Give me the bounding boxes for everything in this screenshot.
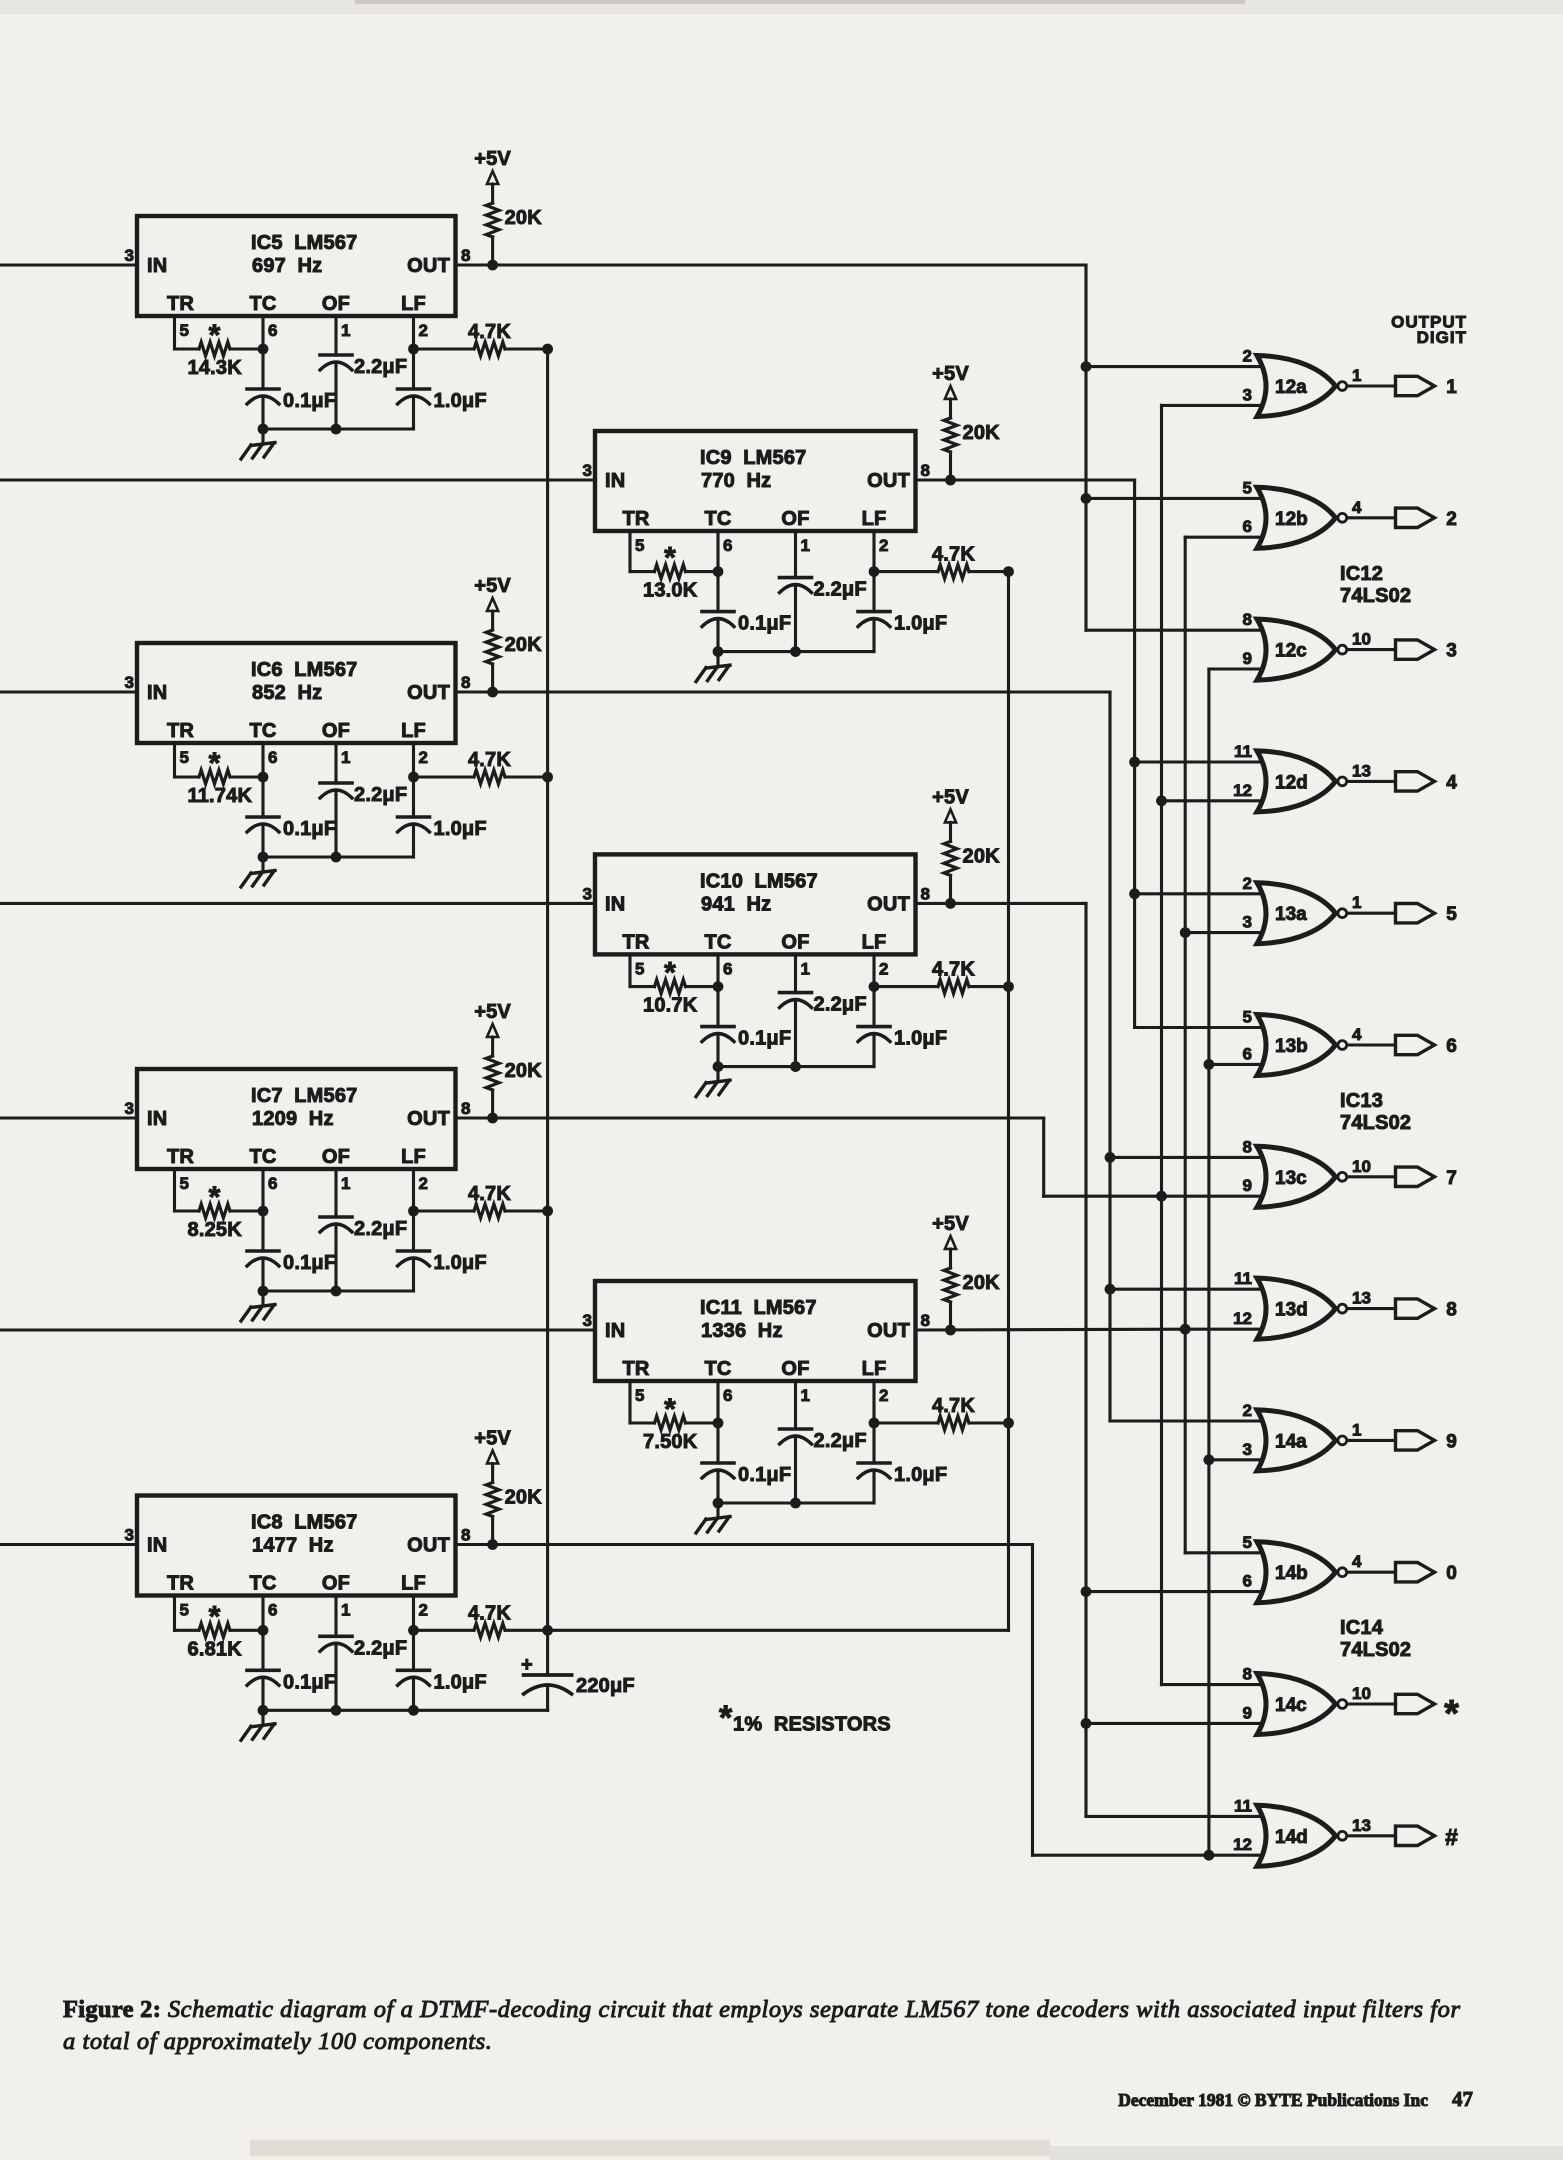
svg-text:OUT: OUT (407, 1535, 450, 1557)
ground symbol of IC7 (241, 1291, 275, 1321)
svg-text:2.2μF: 2.2μF (354, 1218, 407, 1240)
svg-text:OF: OF (322, 1573, 350, 1595)
svg-text:6: 6 (1243, 1572, 1252, 1591)
wire: input 9 feed of gate 12c (1209, 667, 1262, 670)
node: output digit label 9 (1446, 1431, 1457, 1452)
svg-text:5: 5 (180, 1601, 189, 1620)
resistor 4.7K (LF of IC6) (414, 749, 548, 784)
svg-text:IC8 LM567: IC8 LM567 (251, 1512, 357, 1534)
wire: pin 1 OF stub of IC7 (334, 1169, 337, 1217)
capacitor 220uF electrolytic (521, 1630, 635, 1710)
resistor 20K pull-up of IC7 (486, 1037, 542, 1118)
svg-text:5: 5 (1446, 904, 1457, 925)
svg-text:5: 5 (1243, 1533, 1252, 1552)
wire: pin 1 OF stub of IC5 (334, 316, 337, 355)
power +5V symbol of IC9 (932, 363, 969, 399)
wire: pin 5 TR stub of IC10 (628, 954, 631, 986)
svg-text:4.7K: 4.7K (468, 1602, 511, 1624)
svg-text:LF: LF (401, 1146, 426, 1168)
svg-text:14c: 14c (1275, 1695, 1307, 1716)
svg-text:770 Hz: 770 Hz (701, 470, 771, 492)
wire: pin 1 OF stub of IC10 (794, 954, 797, 992)
svg-text:3: 3 (1243, 1440, 1252, 1459)
svg-text:TR: TR (167, 720, 194, 742)
node: LF junction of IC7 (408, 1206, 419, 1217)
node: bus tap for 13c pin 8 (1105, 1152, 1116, 1163)
svg-text:20K: 20K (963, 1272, 1001, 1294)
output buffer arrow for digit 0 (1396, 1563, 1435, 1582)
node: OUTPUT DIGIT heading (1391, 313, 1467, 348)
wire: 220uF ground rail extension (414, 1709, 548, 1712)
svg-text:+: + (521, 1654, 533, 1676)
wire: ground rail of IC9 (718, 650, 874, 653)
wire: bus D (IC10 941 Hz) vertical (1084, 903, 1087, 1816)
node: OUT pull-up junction of IC6 (487, 687, 498, 698)
power +5V symbol of IC11 (932, 1213, 969, 1249)
svg-text:7.50K: 7.50K (643, 1431, 698, 1453)
wire: pin 5 TR stub of IC8 (173, 1596, 176, 1631)
wire: input 2 feed of gate 14a (1110, 1419, 1262, 1422)
svg-text:6: 6 (723, 959, 732, 978)
node: loop-filter junction of IC7 (542, 1206, 553, 1217)
wire: input line to IC8 IN (pin 3) (0, 1543, 137, 1546)
svg-text:20K: 20K (505, 207, 543, 229)
node: LF junction of IC11 (869, 1418, 880, 1429)
wire: pin 1 OF stub of IC6 (334, 743, 337, 783)
wire: pin 6 TC stub of IC8 (261, 1596, 264, 1631)
ground symbol of IC8 (241, 1710, 275, 1740)
svg-text:1.0μF: 1.0μF (894, 1028, 947, 1050)
wire: input 2 feed of gate 12a (1086, 365, 1262, 368)
wire: pin 1 OF stub of IC9 (794, 531, 797, 578)
svg-text:8: 8 (461, 1099, 470, 1118)
svg-text:3: 3 (125, 1099, 134, 1118)
svg-text:13a: 13a (1275, 904, 1307, 925)
wire: input 6 feed of gate 12b (1185, 536, 1262, 539)
svg-text:8.25K: 8.25K (188, 1219, 243, 1241)
svg-text:220μF: 220μF (576, 1675, 635, 1697)
svg-text:7: 7 (1446, 1168, 1457, 1189)
wire: pin 2 LF stub of IC9 (872, 531, 875, 572)
svg-text:LF: LF (401, 720, 426, 742)
svg-text:12d: 12d (1275, 772, 1308, 793)
svg-text:4: 4 (1352, 1025, 1362, 1044)
svg-text:2: 2 (879, 1386, 888, 1405)
svg-text:5: 5 (1243, 1008, 1252, 1027)
node: output digit label 6 (1446, 1036, 1457, 1057)
node: output digit label 2 (1446, 509, 1457, 530)
svg-text:10: 10 (1352, 1684, 1371, 1703)
svg-text:14b: 14b (1275, 1563, 1308, 1584)
ground symbol of IC11 (696, 1503, 730, 1533)
svg-text:20K: 20K (963, 845, 1001, 867)
resistor 4.7K (LF of IC11) (874, 1395, 1009, 1430)
node: rail junction under OF of IC11 (790, 1498, 801, 1509)
svg-text:TC: TC (704, 508, 731, 530)
svg-text:LF: LF (862, 508, 887, 530)
svg-text:OUT: OUT (407, 682, 450, 704)
svg-text:13: 13 (1352, 1289, 1371, 1308)
svg-text:IC11 LM567: IC11 LM567 (700, 1297, 817, 1319)
svg-text:OF: OF (322, 720, 350, 742)
wire: pin 6 TC stub of IC10 (716, 954, 719, 986)
svg-text:6: 6 (268, 748, 277, 767)
svg-text:5: 5 (180, 748, 189, 767)
node: LF junction of IC8 (408, 1625, 419, 1636)
resistor 4.7K (LF of IC7) (414, 1183, 548, 1218)
svg-text:IC13: IC13 (1340, 1090, 1383, 1112)
wire: pin 1 OF stub of IC8 (334, 1596, 337, 1637)
wire: input 2 feed of gate 13a (1135, 892, 1262, 895)
resistor 20K pull-up of IC9 (944, 399, 1000, 480)
wire: input 12 feed of gate 12d (1162, 799, 1263, 802)
capacitor 1.0uF (LF of IC5) (398, 349, 487, 429)
wire: input 11 feed of gate 12d (1135, 760, 1262, 763)
svg-text:*: * (1444, 1693, 1459, 1735)
capacitor 0.1uF (TC of IC8) (247, 1630, 336, 1710)
node: bus tap for 14b pin 6 (1081, 1586, 1092, 1597)
svg-text:2: 2 (419, 1174, 428, 1193)
wire: input 5 feed of gate 14b (1185, 1551, 1262, 1554)
svg-text:OF: OF (781, 1358, 809, 1380)
wire: input 6 feed of gate 14b (1086, 1590, 1262, 1593)
svg-text:IN: IN (147, 1108, 167, 1130)
power +5V symbol of IC5 (474, 148, 511, 184)
svg-text:OF: OF (781, 931, 809, 953)
svg-text:2: 2 (419, 321, 428, 340)
svg-text:IC7 LM567: IC7 LM567 (251, 1085, 357, 1107)
wire: pin 2 LF stub of IC7 (412, 1169, 415, 1211)
IC8 LM567 1477 Hz tone decoder block (125, 1496, 471, 1620)
wire: input line to IC6 IN (pin 3) (0, 690, 137, 693)
wire: input line to IC5 IN (pin 3) (0, 263, 137, 266)
wire: IC11 OUT line (1336 Hz) to bus F (916, 1328, 1186, 1332)
svg-text:4.7K: 4.7K (932, 544, 975, 566)
IC6 LM567 852 Hz tone decoder block (125, 643, 471, 767)
svg-text:8: 8 (1243, 610, 1252, 629)
svg-text:5: 5 (635, 1386, 644, 1405)
svg-text:IC12: IC12 (1340, 563, 1383, 585)
capacitor 1.0uF (LF of IC9) (858, 572, 947, 652)
wire: input line to IC9 IN (pin 3) (0, 478, 595, 481)
svg-text:*: * (209, 319, 221, 352)
inverter bubble of gate 12c (1338, 645, 1347, 654)
node: bus tap for 12b pin 5 (1081, 493, 1092, 504)
svg-text:11: 11 (1234, 742, 1252, 761)
svg-text:12c: 12c (1275, 641, 1307, 662)
wire: output pin 4 of gate 13b (1347, 1025, 1395, 1045)
svg-text:2: 2 (419, 748, 428, 767)
node: OUT pull-up junction of IC10 (945, 898, 956, 909)
NOR gate 12b (74LS02) (1243, 478, 1336, 548)
svg-text:1: 1 (341, 748, 350, 767)
IC14 74LS02 label (1340, 1617, 1411, 1661)
svg-text:1.0μF: 1.0μF (894, 613, 947, 635)
svg-text:2.2μF: 2.2μF (354, 1637, 407, 1659)
svg-text:LF: LF (401, 1573, 426, 1595)
svg-text:9: 9 (1243, 1176, 1252, 1195)
svg-text:0.1μF: 0.1μF (738, 1028, 791, 1050)
svg-text:20K: 20K (505, 1060, 543, 1082)
svg-text:10: 10 (1352, 1157, 1371, 1176)
wire: input 11 feed of gate 13d (1110, 1288, 1262, 1291)
inverter bubble of gate 14c (1338, 1700, 1347, 1709)
svg-text:10: 10 (1352, 630, 1371, 649)
wire: output pin 13 of gate 12d (1347, 761, 1395, 781)
svg-text:4: 4 (1352, 498, 1362, 517)
svg-text:11: 11 (1234, 1269, 1252, 1288)
svg-text:6: 6 (1243, 517, 1252, 536)
wire: pin 2 LF stub of IC10 (872, 954, 875, 986)
resistor 13.0K 1% (TR-TC of IC9) (630, 542, 718, 602)
wire: input 8 feed of gate 13c (1110, 1156, 1262, 1159)
node: rail junction under TC of IC7 (258, 1286, 269, 1297)
node: output digit label 8 (1446, 1300, 1457, 1321)
svg-text:+5V: +5V (932, 786, 969, 808)
svg-text:12b: 12b (1275, 509, 1308, 530)
svg-text:0.1μF: 0.1μF (283, 390, 336, 412)
resistor 6.81K 1% (TR-TC of IC8) (175, 1600, 264, 1660)
svg-text:13d: 13d (1275, 1300, 1308, 1321)
output buffer arrow for digit # (1396, 1826, 1435, 1845)
svg-text:10.7K: 10.7K (643, 995, 698, 1017)
svg-text:6: 6 (268, 321, 277, 340)
node: loop-filter junction of IC5 (542, 344, 553, 355)
wire: pin 2 LF stub of IC5 (412, 316, 415, 349)
svg-text:5: 5 (180, 321, 189, 340)
svg-text:1: 1 (1352, 1420, 1361, 1439)
wire: IC5 OUT line (697 Hz) to bus A (456, 263, 1087, 266)
wire: ground rail of IC11 (718, 1501, 874, 1504)
svg-text:*: * (719, 1699, 733, 1737)
svg-text:941 Hz: 941 Hz (701, 893, 771, 915)
capacitor 0.1uF (TC of IC9) (702, 572, 791, 652)
wire: bus E (IC7 1209 Hz) vertical (1160, 405, 1163, 1684)
svg-text:3: 3 (1446, 641, 1457, 662)
wire: output pin 10 of gate 13c (1347, 1157, 1395, 1177)
wire: output pin 13 of gate 14d (1347, 1816, 1395, 1836)
output buffer arrow for digit 2 (1396, 508, 1435, 527)
node: rail junction under OF of IC5 (331, 424, 342, 435)
svg-text:13b: 13b (1275, 1036, 1308, 1057)
inverter bubble of gate 14d (1338, 1831, 1347, 1840)
inverter bubble of gate 13c (1338, 1172, 1347, 1181)
svg-text:TR: TR (167, 1146, 194, 1168)
svg-text:*: * (209, 747, 221, 780)
svg-text:3: 3 (1243, 913, 1252, 932)
wire: ground rail of IC10 (718, 1065, 874, 1068)
svg-text:14.3K: 14.3K (188, 357, 243, 379)
svg-text:IN: IN (147, 255, 167, 277)
svg-text:12: 12 (1233, 781, 1252, 800)
node: rail junction under OF of IC8 (331, 1705, 342, 1716)
wire: input line to IC10 IN (pin 3) (0, 902, 595, 905)
svg-text:IC9 LM567: IC9 LM567 (700, 447, 806, 469)
svg-text:4.7K: 4.7K (468, 321, 511, 343)
svg-text:3: 3 (125, 246, 134, 265)
svg-text:*: * (664, 542, 676, 575)
node: rail junction under TC of IC5 (258, 424, 269, 435)
node: 1% resistors note (719, 1699, 891, 1737)
svg-text:14d: 14d (1275, 1827, 1308, 1848)
node: bus tap for 13a pin 2 (1129, 888, 1140, 899)
svg-text:TC: TC (249, 1146, 276, 1168)
svg-text:TC: TC (704, 931, 731, 953)
svg-text:8: 8 (921, 884, 930, 903)
wire: pin 6 TC stub of IC5 (261, 316, 264, 349)
resistor 20K pull-up of IC5 (486, 184, 542, 265)
svg-text:852 Hz: 852 Hz (252, 682, 322, 704)
wire: loop-filter bus x1008 (IC9-IC11 LF summing) (1007, 572, 1010, 1631)
node: output digit label 3 (1446, 641, 1457, 662)
NOR gate 13c (74LS02) (1243, 1137, 1336, 1207)
inverter bubble of gate 14a (1338, 1436, 1347, 1445)
capacitor 2.2uF (OF of IC10) (780, 993, 867, 1067)
node: rail junction under TC of IC9 (713, 646, 724, 657)
wire: IC8 OUT line (1477 Hz) jog to bus G (456, 1545, 1209, 1856)
node: output digit label 5 (1446, 904, 1457, 925)
wire: input line to IC7 IN (pin 3) (0, 1116, 137, 1119)
svg-text:9: 9 (1446, 1431, 1457, 1452)
svg-text:3: 3 (583, 884, 592, 903)
power +5V symbol of IC7 (474, 1001, 511, 1037)
svg-text:+5V: +5V (932, 363, 969, 385)
node: bus tap for 14d pin 12 (1204, 1850, 1215, 1861)
svg-text:4: 4 (1352, 1552, 1362, 1571)
wire: pin 6 TC stub of IC9 (716, 531, 719, 572)
svg-text:13c: 13c (1275, 1168, 1307, 1189)
svg-text:4.7K: 4.7K (932, 959, 975, 981)
node: rail junction under TC of IC10 (713, 1061, 724, 1072)
svg-text:8: 8 (921, 461, 930, 480)
svg-text:1: 1 (341, 1174, 350, 1193)
node: output digit label * (1444, 1693, 1459, 1735)
svg-text:1477 Hz: 1477 Hz (252, 1535, 334, 1557)
svg-text:8: 8 (921, 1311, 930, 1330)
NOR gate 12a (74LS02) (1243, 347, 1336, 417)
node: LF junction of IC5 (408, 344, 419, 355)
svg-text:IC5 LM567: IC5 LM567 (251, 232, 357, 254)
wire: pin 5 TR stub of IC11 (628, 1381, 631, 1423)
svg-text:*: * (664, 1393, 676, 1426)
wire: input 8 feed of gate 12c (1086, 629, 1262, 632)
wire: ground rail of IC5 (263, 427, 414, 430)
svg-text:1% RESISTORS: 1% RESISTORS (733, 1714, 891, 1736)
wire: pin 6 TC stub of IC11 (716, 1381, 719, 1423)
svg-text:+5V: +5V (932, 1213, 969, 1235)
node: output digit label 1 (1446, 377, 1457, 398)
wire: pin 5 TR stub of IC9 (628, 531, 631, 572)
wire: input 9 feed of gate 14c (1086, 1722, 1262, 1725)
capacitor 1.0uF (LF of IC7) (398, 1211, 487, 1291)
svg-text:8: 8 (461, 1526, 470, 1545)
node: TC junction of IC5 (258, 344, 269, 355)
svg-text:6: 6 (268, 1601, 277, 1620)
NOR gate 13d (74LS02) (1233, 1269, 1335, 1339)
inverter bubble of gate 12d (1338, 777, 1347, 786)
node: page footer (1118, 2087, 1473, 2111)
node: OUT pull-up junction of IC5 (487, 260, 498, 271)
svg-text:0.1μF: 0.1μF (283, 1671, 336, 1693)
output buffer arrow for digit 3 (1396, 640, 1435, 659)
svg-text:4.7K: 4.7K (932, 1395, 975, 1417)
inverter bubble of gate 13d (1338, 1304, 1347, 1313)
svg-text:LF: LF (401, 293, 426, 315)
wire: input 5 feed of gate 13b (1135, 1026, 1262, 1029)
power +5V symbol of IC10 (932, 786, 969, 822)
svg-text:OF: OF (322, 1146, 350, 1168)
resistor 10.7K 1% (TR-TC of IC10) (630, 957, 718, 1017)
svg-text:TC: TC (704, 1358, 731, 1380)
node: output digit label # (1445, 1824, 1458, 1850)
output buffer arrow for digit 4 (1396, 772, 1435, 791)
wire: IC10 OUT line (941 Hz) to bus D (916, 902, 1087, 905)
capacitor 0.1uF (TC of IC5) (247, 349, 336, 429)
svg-text:4.7K: 4.7K (468, 1183, 511, 1205)
svg-text:1.0μF: 1.0μF (434, 818, 487, 840)
svg-text:LF: LF (862, 931, 887, 953)
svg-text:6: 6 (723, 536, 732, 555)
svg-text:2.2μF: 2.2μF (814, 994, 867, 1016)
NOR gate 13b (74LS02) (1243, 1008, 1336, 1076)
inverter bubble of gate 13b (1338, 1041, 1347, 1050)
wire: pin 6 TC stub of IC7 (261, 1169, 264, 1211)
wire: input 11 feed of gate 14d (1086, 1815, 1262, 1818)
ground symbol of IC10 (696, 1067, 730, 1097)
svg-text:4.7K: 4.7K (468, 749, 511, 771)
svg-text:20K: 20K (963, 422, 1001, 444)
svg-text:8: 8 (461, 246, 470, 265)
svg-text:*: * (209, 1181, 221, 1214)
node: loop-filter junction of IC9 (1003, 566, 1014, 577)
resistor 11.74K 1% (TR-TC of IC6) (175, 747, 264, 807)
IC5 LM567 697 Hz tone decoder block (125, 216, 471, 340)
resistor 20K pull-up of IC10 (944, 822, 1000, 903)
svg-text:12: 12 (1233, 1835, 1252, 1854)
NOR gate 14c (74LS02) (1243, 1665, 1336, 1735)
svg-text:0: 0 (1446, 1563, 1457, 1584)
svg-text:OUT: OUT (867, 470, 910, 492)
svg-text:a total of approximately 100 c: a total of approximately 100 components. (63, 2028, 492, 2055)
node: rail junction under OF of IC6 (331, 852, 342, 863)
svg-text:8: 8 (1446, 1300, 1457, 1321)
svg-text:2: 2 (1243, 874, 1252, 893)
svg-text:12a: 12a (1275, 377, 1307, 398)
capacitor 2.2uF (OF of IC5) (320, 355, 407, 429)
capacitor 1.0uF (LF of IC11) (858, 1423, 947, 1503)
wire: input 5 feed of gate 12b (1086, 497, 1262, 500)
IC7 LM567 1209 Hz tone decoder block (125, 1069, 471, 1193)
IC11 LM567 1336 Hz tone decoder block (583, 1281, 930, 1405)
wire: input 3 feed of gate 13a (1185, 931, 1262, 934)
wire: IC7 OUT line (1209 Hz) jog to bus E (456, 1118, 1162, 1196)
capacitor 0.1uF (TC of IC7) (247, 1211, 336, 1291)
svg-text:8: 8 (461, 673, 470, 692)
svg-text:3: 3 (125, 1526, 134, 1545)
svg-text:IN: IN (605, 470, 625, 492)
svg-text:12: 12 (1233, 1309, 1252, 1328)
resistor 20K pull-up of IC11 (944, 1249, 1000, 1330)
node: bus tap for 13d pin 12 (1180, 1324, 1191, 1335)
node: loop-filter junction of IC11 (1003, 1418, 1014, 1429)
output buffer arrow for digit 7 (1396, 1167, 1435, 1186)
svg-text:2: 2 (879, 959, 888, 978)
node: LF junction of IC9 (869, 566, 880, 577)
svg-text:9: 9 (1243, 649, 1252, 668)
svg-text:2.2μF: 2.2μF (354, 784, 407, 806)
svg-text:8: 8 (1243, 1665, 1252, 1684)
node: rail junction under LF of IC8 (408, 1705, 419, 1716)
